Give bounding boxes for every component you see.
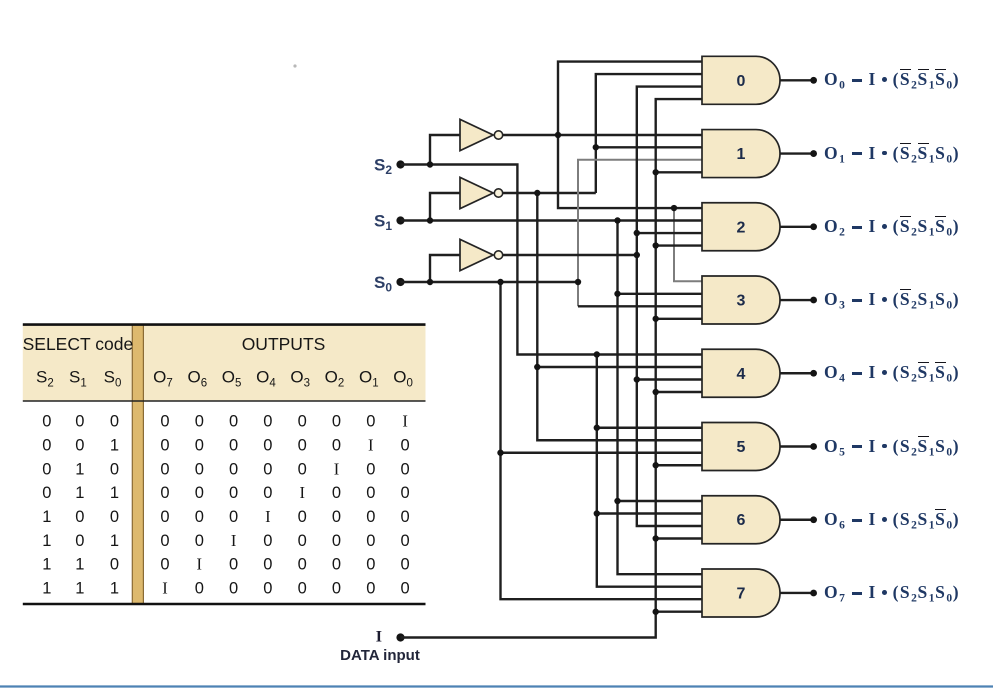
node S0bar junction gate 2 xyxy=(634,230,640,236)
wire output O7 xyxy=(780,592,811,594)
svg-text:0: 0 xyxy=(110,508,119,526)
svg-text:1: 1 xyxy=(75,460,84,478)
node O3 output terminal xyxy=(810,297,817,304)
svg-text:0: 0 xyxy=(110,413,119,431)
wire output O5 xyxy=(780,445,811,447)
node I junction gate 2 xyxy=(653,242,659,248)
svg-text:0: 0 xyxy=(160,460,169,478)
svg-text:5: 5 xyxy=(737,439,746,456)
svg-text:0: 0 xyxy=(229,580,238,598)
wire output O4 xyxy=(780,372,811,374)
svg-text:3: 3 xyxy=(737,293,746,310)
svg-text:1: 1 xyxy=(42,580,51,598)
truth table header background xyxy=(23,325,426,401)
node I junction gate 4 xyxy=(653,389,659,395)
label output formula O6 xyxy=(824,508,960,531)
svg-text:0: 0 xyxy=(229,484,238,502)
node I junction gate 7 xyxy=(653,609,659,615)
svg-text:7: 7 xyxy=(737,585,746,602)
svg-text:0: 0 xyxy=(366,580,375,598)
inverter U1 (S2) xyxy=(460,119,503,150)
svg-text:0: 0 xyxy=(366,484,375,502)
svg-text:0: 0 xyxy=(263,436,272,454)
svg-text:0: 0 xyxy=(160,484,169,502)
svg-text:I: I xyxy=(402,412,408,431)
svg-text:SELECT code: SELECT code xyxy=(23,334,134,354)
inverter U3 (S0) xyxy=(460,239,503,270)
svg-text:0: 0 xyxy=(298,508,307,526)
svg-text:1: 1 xyxy=(42,532,51,550)
svg-text:0: 0 xyxy=(332,413,341,431)
label output formula O0 xyxy=(824,68,960,91)
svg-text:I: I xyxy=(265,507,271,526)
AND gate G6 xyxy=(702,496,780,544)
svg-text:0: 0 xyxy=(401,484,410,502)
svg-text:1: 1 xyxy=(75,484,84,502)
svg-text:0: 0 xyxy=(229,556,238,574)
svg-text:0: 0 xyxy=(160,508,169,526)
wire S2 vertical to gates 5-7 xyxy=(597,355,702,587)
svg-text:6: 6 xyxy=(737,512,746,529)
svg-text:1: 1 xyxy=(42,556,51,574)
node I junction gate 5 xyxy=(653,462,659,468)
svg-text:1: 1 xyxy=(75,580,84,598)
node O5 output terminal xyxy=(810,443,817,450)
svg-text:0: 0 xyxy=(160,556,169,574)
svg-text:0: 0 xyxy=(366,556,375,574)
wire S1bar to gate 4 input 2 xyxy=(537,366,702,368)
svg-text:2: 2 xyxy=(737,219,746,236)
svg-text:1: 1 xyxy=(737,146,746,163)
node O0 output terminal xyxy=(810,77,817,84)
wire S1 vertical to gates 3,6,7 xyxy=(618,221,703,575)
wire S1bar vertical down to gates 4,5 xyxy=(537,193,702,440)
svg-text:0: 0 xyxy=(298,413,307,431)
svg-text:S0: S0 xyxy=(374,273,392,295)
svg-text:0: 0 xyxy=(366,508,375,526)
svg-text:1: 1 xyxy=(110,436,119,454)
svg-text:0: 0 xyxy=(160,413,169,431)
svg-text:I: I xyxy=(299,483,305,502)
svg-text:1: 1 xyxy=(110,532,119,550)
truth table header rule xyxy=(23,400,426,402)
node O2 output terminal xyxy=(810,223,817,230)
svg-text:0: 0 xyxy=(229,508,238,526)
svg-text:0: 0 xyxy=(75,532,84,550)
svg-text:S1: S1 xyxy=(374,211,392,233)
svg-text:4: 4 xyxy=(737,366,746,383)
svg-text:0: 0 xyxy=(110,556,119,574)
truth table top rule xyxy=(23,323,426,326)
svg-text:DATA input: DATA input xyxy=(340,647,420,664)
node S0 junction on row end xyxy=(575,279,581,285)
wire S1bar row from inverter U2 xyxy=(503,192,596,194)
AND gate G2 xyxy=(702,203,780,251)
label output formula O7 xyxy=(824,581,960,604)
node I junction gate 1 xyxy=(653,169,659,175)
wire S1 input row to gate 2 input 2 xyxy=(401,219,703,221)
svg-text:0: 0 xyxy=(366,413,375,431)
wire S0bar row from inverter U3 xyxy=(503,254,637,256)
node O1 output terminal xyxy=(810,150,817,157)
svg-text:0: 0 xyxy=(195,532,204,550)
svg-text:0: 0 xyxy=(195,484,204,502)
wire S0bar to gate 4 input 3 xyxy=(637,378,702,380)
svg-text:0: 0 xyxy=(401,436,410,454)
svg-text:0: 0 xyxy=(298,556,307,574)
svg-text:0: 0 xyxy=(366,460,375,478)
wire output O1 xyxy=(780,152,811,154)
wire output O2 xyxy=(780,226,811,228)
wire S2 branch to inverter U1 input xyxy=(430,135,460,165)
svg-text:0: 0 xyxy=(332,580,341,598)
AND gate G7 xyxy=(702,569,780,617)
svg-text:I: I xyxy=(231,531,237,550)
node I junction gate 6 xyxy=(653,535,659,541)
wire S2bar row from inverter U1 to gate 1 input 1 xyxy=(503,134,702,136)
svg-text:0: 0 xyxy=(332,532,341,550)
wire I to gate 3 input 4 xyxy=(656,318,702,320)
svg-text:I: I xyxy=(162,579,168,598)
svg-text:0: 0 xyxy=(401,460,410,478)
node S0 junction gate 5 xyxy=(497,450,503,456)
node S0 junction lower vertical xyxy=(497,279,503,285)
node S1bar junction gate 4 xyxy=(534,364,540,370)
svg-text:0: 0 xyxy=(195,413,204,431)
svg-text:0: 0 xyxy=(401,580,410,598)
svg-text:0: 0 xyxy=(195,460,204,478)
svg-text:0: 0 xyxy=(195,580,204,598)
node S2 junction gate 6 xyxy=(594,510,600,516)
wire output O6 xyxy=(780,519,811,521)
svg-text:I: I xyxy=(197,555,203,574)
wire I to gate 2 input 4 xyxy=(656,244,702,246)
node S2 junction gate 5 xyxy=(594,425,600,431)
AND gate G0 xyxy=(702,56,780,104)
svg-text:0: 0 xyxy=(401,532,410,550)
wire S0 to gate 3 input 3 xyxy=(578,305,702,307)
node S0 input terminal xyxy=(374,273,405,295)
svg-text:1: 1 xyxy=(42,508,51,526)
wire I data input row and vertical xyxy=(401,99,703,637)
wire S0 gray vertical to gates 1,3 xyxy=(578,160,702,306)
node S0 junction at inverter branch xyxy=(427,279,433,285)
svg-text:0: 0 xyxy=(160,532,169,550)
svg-text:0: 0 xyxy=(263,532,272,550)
svg-text:0: 0 xyxy=(42,460,51,478)
svg-text:0: 0 xyxy=(195,436,204,454)
node S2bar junction gate3 branch xyxy=(671,205,677,211)
wire S0 branch to inverter U3 input xyxy=(430,255,460,282)
wire output O3 xyxy=(780,299,811,301)
node O7 output terminal xyxy=(810,590,817,597)
wire I to gate 4 input 4 xyxy=(656,391,702,393)
AND gate G1 xyxy=(702,130,780,178)
svg-text:OUTPUTS: OUTPUTS xyxy=(242,334,326,354)
node S1 junction gate 6 xyxy=(614,498,620,504)
AND gate G5 xyxy=(702,423,780,471)
node S1bar junction gate 1 xyxy=(593,144,599,150)
svg-text:S2: S2 xyxy=(374,155,392,177)
svg-text:0: 0 xyxy=(229,436,238,454)
wire S1 to gate 6 input 1 xyxy=(618,500,703,502)
wire S2bar branch to gate 3 input 1 xyxy=(674,208,702,281)
node I junction gate 3 xyxy=(653,316,659,322)
svg-text:0: 0 xyxy=(42,436,51,454)
wire I to gate 5 input 4 xyxy=(656,464,702,466)
wire S1 to gate 3 input 2 xyxy=(618,293,703,295)
page bottom rule xyxy=(0,685,993,687)
node S2 input terminal xyxy=(374,155,405,177)
svg-text:0: 0 xyxy=(229,460,238,478)
svg-text:0: 0 xyxy=(401,556,410,574)
svg-text:0: 0 xyxy=(332,436,341,454)
node O6 output terminal xyxy=(810,516,817,523)
truth table data cells xyxy=(42,412,409,598)
svg-text:0: 0 xyxy=(195,508,204,526)
wire I to gate 1 input 4 xyxy=(656,171,702,173)
node S0bar junction on row xyxy=(634,252,640,258)
node I DATA input terminal xyxy=(340,629,420,665)
svg-text:0: 0 xyxy=(263,556,272,574)
node S1 junction on row xyxy=(614,217,620,223)
truth table bottom rule xyxy=(23,603,426,606)
svg-text:I: I xyxy=(334,459,340,478)
wire S1bar vertical up to gates 0,1 xyxy=(596,74,702,193)
svg-text:0: 0 xyxy=(75,436,84,454)
svg-text:0: 0 xyxy=(263,460,272,478)
wire S0 vertical to gates 5,7 xyxy=(501,282,703,599)
svg-text:0: 0 xyxy=(332,508,341,526)
svg-text:0: 0 xyxy=(263,580,272,598)
svg-text:0: 0 xyxy=(298,532,307,550)
node S2 junction feeding lower vertical xyxy=(594,351,600,357)
AND gate G4 xyxy=(702,349,780,397)
node S1bar junction on row xyxy=(534,190,540,196)
svg-text:0: 0 xyxy=(298,436,307,454)
wire S2bar vertical gate0/gate2 xyxy=(558,62,702,208)
svg-text:0: 0 xyxy=(366,532,375,550)
svg-text:1: 1 xyxy=(110,484,119,502)
svg-text:1: 1 xyxy=(75,556,84,574)
svg-text:0: 0 xyxy=(229,413,238,431)
svg-text:0: 0 xyxy=(332,484,341,502)
wire S2 to gate 5 input 1 xyxy=(597,427,702,429)
svg-text:0: 0 xyxy=(737,73,746,90)
wire S1 branch to inverter U2 input xyxy=(430,193,460,221)
node S1 input terminal xyxy=(374,211,405,233)
inverter U2 (S1) xyxy=(460,177,503,208)
svg-text:0: 0 xyxy=(42,484,51,502)
truth table column divider bar xyxy=(132,325,143,604)
wire S0 to gate 5 input 3 xyxy=(501,452,703,454)
svg-text:0: 0 xyxy=(332,556,341,574)
node S2 junction at inverter branch xyxy=(427,161,433,167)
node S0bar junction gate 4 xyxy=(634,376,640,382)
svg-text:0: 0 xyxy=(298,460,307,478)
wire I to gate 7 input 4 xyxy=(656,611,702,613)
label output formula O3 xyxy=(824,288,960,311)
svg-text:I: I xyxy=(368,435,374,454)
node S2bar junction on row xyxy=(555,132,561,138)
svg-text:I: I xyxy=(376,629,382,646)
node O4 output terminal xyxy=(810,370,817,377)
wire I to gate 6 input 4 xyxy=(656,537,702,539)
label output formula O4 xyxy=(824,361,960,384)
svg-text:0: 0 xyxy=(298,580,307,598)
stray speck artifact xyxy=(293,64,296,67)
wire S2 input row xyxy=(401,165,703,355)
svg-text:0: 0 xyxy=(263,413,272,431)
svg-text:0: 0 xyxy=(263,484,272,502)
node S1 junction gate 3 xyxy=(614,291,620,297)
svg-text:0: 0 xyxy=(75,508,84,526)
wire S0bar vertical gates 0,2,4,6 xyxy=(637,87,702,526)
svg-text:0: 0 xyxy=(401,508,410,526)
svg-text:0: 0 xyxy=(110,460,119,478)
label output formula O5 xyxy=(824,435,960,458)
svg-text:0: 0 xyxy=(75,413,84,431)
label output formula O1 xyxy=(824,142,960,165)
wire S0bar to gate 2 input 3 xyxy=(637,232,702,234)
label output formula O2 xyxy=(824,215,960,238)
wire S2 to gate 6 input 2 xyxy=(597,512,702,514)
svg-text:1: 1 xyxy=(110,580,119,598)
AND gate G3 xyxy=(702,276,780,324)
svg-text:0: 0 xyxy=(160,436,169,454)
node S1 junction at inverter branch xyxy=(427,217,433,223)
wire output O0 xyxy=(780,79,811,81)
svg-text:0: 0 xyxy=(42,413,51,431)
wire S1bar to gate 1 input 2 xyxy=(596,146,702,148)
wire S0 input row xyxy=(401,281,579,283)
